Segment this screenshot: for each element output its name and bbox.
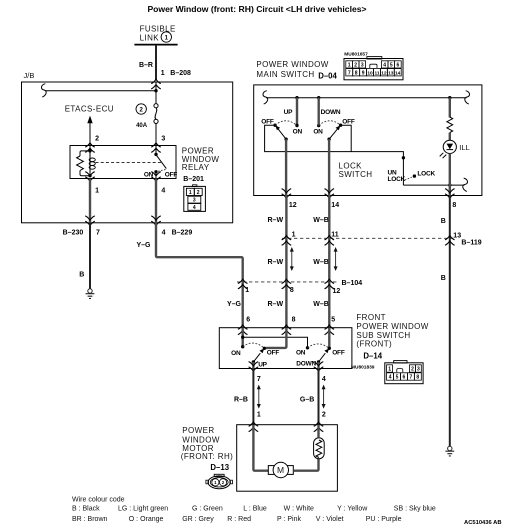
relay pin 2 chevrons xyxy=(85,143,95,153)
svg-text:B–208: B–208 xyxy=(170,70,191,77)
svg-text:4: 4 xyxy=(383,62,386,68)
svg-text:R–W: R–W xyxy=(268,217,284,224)
wire fuse to relay pin 3 xyxy=(155,124,157,146)
svg-text:OFF: OFF xyxy=(332,350,345,357)
svg-text:6: 6 xyxy=(397,62,400,68)
svg-text:G–B: G–B xyxy=(300,396,314,403)
pin 5 entry chevrons xyxy=(325,325,335,335)
connector B-229 chevrons xyxy=(151,216,161,226)
svg-text:POWER WINDOW: POWER WINDOW xyxy=(356,322,428,331)
front power window sub switch box xyxy=(219,328,352,369)
motor name label xyxy=(181,426,233,461)
svg-text:5: 5 xyxy=(331,316,335,323)
svg-text:G : Green: G : Green xyxy=(192,505,223,512)
svg-text:8: 8 xyxy=(290,287,294,294)
wire B-R down to fuse xyxy=(155,82,157,104)
wire B main pin 8 down xyxy=(449,196,451,447)
svg-text:(FRONT): (FRONT) xyxy=(356,339,392,348)
svg-text:ETACS-ECU: ETACS-ECU xyxy=(65,104,114,113)
relay pin 4 chevrons xyxy=(151,172,161,182)
ILL lamp LED xyxy=(440,140,457,158)
svg-text:6: 6 xyxy=(246,316,250,323)
svg-text:B–229: B–229 xyxy=(172,230,193,237)
pin 6 entry chevrons xyxy=(238,325,248,335)
svg-text:8: 8 xyxy=(292,316,296,323)
wire R-W to left OFF contact xyxy=(266,328,286,348)
svg-text:Y : Yellow: Y : Yellow xyxy=(337,505,368,512)
connector D-14 pin diagram xyxy=(385,361,423,384)
svg-text:DOWN: DOWN xyxy=(296,361,316,368)
svg-text:2: 2 xyxy=(95,136,99,143)
svg-text:2: 2 xyxy=(411,367,414,373)
svg-text:12: 12 xyxy=(381,70,387,76)
wire relay pin4 down inside J/B xyxy=(155,179,157,223)
node right OFF contact xyxy=(328,347,331,350)
svg-text:PU : Purple: PU : Purple xyxy=(366,516,402,523)
wire R-W main pin 12 down xyxy=(285,196,287,328)
svg-text:POWER WINDOW: POWER WINDOW xyxy=(256,60,328,69)
svg-text:O : Orange: O : Orange xyxy=(129,516,164,523)
svg-text:OFF: OFF xyxy=(342,118,355,125)
svg-text:DOWN: DOWN xyxy=(321,109,341,116)
main switch name label xyxy=(256,60,328,79)
svg-text:AC510436 AB: AC510436 AB xyxy=(464,520,501,526)
B-104 chevrons Y-G xyxy=(238,279,248,289)
svg-text:5: 5 xyxy=(390,62,393,68)
svg-text:13: 13 xyxy=(388,70,394,76)
node Y-G junction xyxy=(241,336,244,339)
svg-text:MAIN SWITCH: MAIN SWITCH xyxy=(256,70,314,79)
wire bus to UP ON contact xyxy=(296,98,298,126)
svg-text:4: 4 xyxy=(193,205,196,211)
fuse label circled 2 xyxy=(136,104,146,114)
node UP common pivot xyxy=(284,138,287,141)
wire label B right lower, ground right xyxy=(445,446,454,456)
B-119 chevrons W-B xyxy=(325,236,335,246)
svg-text:M: M xyxy=(277,465,284,475)
svg-text:FRONT: FRONT xyxy=(356,313,386,322)
ground left xyxy=(86,289,95,299)
svg-text:RELAY: RELAY xyxy=(182,163,210,172)
wire motor pin 1 to motor xyxy=(253,425,268,471)
svg-text:14: 14 xyxy=(395,70,401,76)
relay dashed travel xyxy=(158,170,166,172)
B-119 chevrons B xyxy=(445,236,455,246)
svg-text:ON: ON xyxy=(231,350,241,357)
main switch bus wire xyxy=(266,97,467,99)
svg-text:Power Window (front: RH) Circu: Power Window (front: RH) Circuit <LH dri… xyxy=(147,4,366,14)
DOWN switch blade xyxy=(329,125,340,139)
svg-text:9: 9 xyxy=(362,70,365,76)
wire Y-G to left ON contact xyxy=(241,328,243,347)
lock switch label xyxy=(339,162,373,179)
svg-text:B–201: B–201 xyxy=(183,176,204,183)
svg-text:3: 3 xyxy=(361,62,364,68)
wire bus to ILL resistor xyxy=(449,98,451,118)
svg-text:2: 2 xyxy=(322,411,326,418)
node UP OFF contact xyxy=(273,124,276,127)
svg-text:LINK: LINK xyxy=(140,33,160,42)
svg-text:3: 3 xyxy=(161,136,165,143)
svg-text:11: 11 xyxy=(331,231,339,238)
wire G-B down to motor xyxy=(318,369,320,425)
motor pin 2 entry chevrons xyxy=(314,422,324,432)
node lock switch contact xyxy=(402,156,405,159)
connector D-13 pin diagram xyxy=(206,474,233,488)
svg-text:V : Violet: V : Violet xyxy=(316,516,344,523)
svg-text:B–230: B–230 xyxy=(63,230,84,237)
pin 12 chevrons xyxy=(282,189,292,199)
relay switch blade xyxy=(156,154,167,168)
connector B-208 chevrons xyxy=(151,79,161,89)
svg-text:ILL: ILL xyxy=(459,143,469,152)
left sub switch blade xyxy=(253,349,264,363)
up-down arrow R-B xyxy=(257,385,261,409)
connector D-04 pin diagram xyxy=(344,57,403,80)
svg-text:11: 11 xyxy=(374,70,379,76)
DOWN switch dashed travel arc xyxy=(319,121,341,126)
svg-text:4: 4 xyxy=(161,188,165,195)
svg-text:1: 1 xyxy=(95,188,99,195)
wire break squiggle bus left xyxy=(263,91,268,104)
svg-text:Y–G: Y–G xyxy=(136,242,151,249)
svg-text:8: 8 xyxy=(355,70,358,76)
node left ON contact xyxy=(241,345,244,348)
svg-text:MU801657: MU801657 xyxy=(344,52,368,58)
svg-text:SWITCH: SWITCH xyxy=(339,170,373,179)
wire break squiggle lock line xyxy=(463,178,468,191)
wire break squiggle bus right xyxy=(465,91,470,104)
svg-text:4: 4 xyxy=(389,375,392,381)
svg-text:BR : Brown: BR : Brown xyxy=(72,516,108,523)
svg-text:7: 7 xyxy=(348,70,351,76)
up-down arrow G-B xyxy=(322,385,326,409)
fuse 2 40A element xyxy=(154,104,158,124)
power window main switch box xyxy=(254,85,482,196)
lock switch output line xyxy=(403,184,464,186)
svg-text:5: 5 xyxy=(396,375,399,381)
svg-text:Wire colour code: Wire colour code xyxy=(72,497,125,504)
node bus ILL branch xyxy=(448,96,451,99)
svg-text:2: 2 xyxy=(140,107,144,113)
lock switch dashed travel xyxy=(405,177,412,180)
pin 7 chevrons xyxy=(249,362,259,372)
svg-text:12: 12 xyxy=(289,202,297,209)
pin 8 entry chevrons xyxy=(282,325,292,335)
svg-text:12: 12 xyxy=(333,288,341,295)
wire W-B to right OFF contact xyxy=(328,328,330,349)
wire Y-G junction to right ON contact xyxy=(243,337,308,348)
svg-text:3: 3 xyxy=(193,198,196,204)
svg-text:1: 1 xyxy=(257,411,261,418)
svg-text:1: 1 xyxy=(214,480,217,485)
svg-text:13: 13 xyxy=(453,233,461,240)
pin 14 chevrons xyxy=(325,189,335,199)
svg-text:7: 7 xyxy=(257,376,261,383)
UP switch dashed travel arc xyxy=(275,121,297,126)
wire relay pin1 down inside J/B xyxy=(89,179,91,223)
svg-text:D–14: D–14 xyxy=(363,351,382,360)
node ILL lock junction xyxy=(448,183,451,186)
fusible link bus bar xyxy=(134,44,177,46)
svg-text:W–B: W–B xyxy=(313,259,329,266)
svg-text:Y–G: Y–G xyxy=(227,301,242,308)
svg-text:10: 10 xyxy=(367,70,373,76)
svg-text:B–R: B–R xyxy=(139,62,153,69)
motor M with brushes xyxy=(268,462,293,477)
svg-text:B: B xyxy=(441,275,446,282)
sub switch name label xyxy=(356,313,428,349)
fusible link label xyxy=(140,24,176,42)
wire ILL lamp to pin 8 xyxy=(449,154,451,196)
svg-text:ON: ON xyxy=(313,129,323,136)
svg-text:GR : Grey: GR : Grey xyxy=(182,516,214,523)
svg-text:R : Red: R : Red xyxy=(227,516,251,523)
wire relay ON contact to pin 4 xyxy=(155,172,157,179)
wire left pivot to pin 7 xyxy=(252,362,254,369)
connector B-104 dashed line xyxy=(237,281,339,283)
wire UP common to pin 12 xyxy=(285,139,287,195)
left sub switch dashed travel arc xyxy=(243,343,265,348)
svg-text:7: 7 xyxy=(96,230,100,237)
svg-text:MU801839: MU801839 xyxy=(351,364,375,370)
B-119 chevrons R-W xyxy=(282,236,292,246)
connector label B-230 7 xyxy=(63,230,100,237)
svg-text:3: 3 xyxy=(417,367,420,373)
wire resistor to ILL lamp xyxy=(449,133,451,141)
svg-text:R–W: R–W xyxy=(268,259,284,266)
wire B-R fusible link to J/B xyxy=(155,45,157,80)
svg-text:LOCK: LOCK xyxy=(388,176,406,183)
svg-text:1: 1 xyxy=(161,70,165,77)
svg-text:J/B: J/B xyxy=(24,71,35,80)
svg-text:B–104: B–104 xyxy=(342,280,363,287)
node DOWN ON contact xyxy=(317,124,320,127)
svg-text:OFF: OFF xyxy=(261,118,274,125)
relay pin 1 chevrons xyxy=(85,172,95,182)
svg-text:ON: ON xyxy=(293,129,303,136)
svg-text:POWER: POWER xyxy=(182,426,214,435)
bus wire inside J/B xyxy=(45,90,156,92)
node bus UP branch xyxy=(295,96,298,99)
motor pin 1 entry chevrons xyxy=(249,422,259,432)
node bus DOWN branch xyxy=(317,96,320,99)
power window relay box xyxy=(70,146,176,179)
svg-text:D–04: D–04 xyxy=(318,71,337,80)
OFF contacts bracket rail xyxy=(265,125,404,185)
relay pin 3 chevrons xyxy=(151,143,161,153)
svg-text:1: 1 xyxy=(388,367,391,373)
svg-text:7: 7 xyxy=(410,375,413,381)
svg-text:LOCK: LOCK xyxy=(417,170,435,177)
svg-text:1: 1 xyxy=(348,62,351,68)
node left pivot xyxy=(252,360,255,363)
wire Y-G from B-229 xyxy=(156,223,243,328)
svg-text:B: B xyxy=(79,272,84,279)
relay coil xyxy=(77,146,96,178)
wire motor to breaker xyxy=(293,459,318,471)
label UN LOCK xyxy=(388,169,406,183)
node left OFF contact xyxy=(263,347,266,350)
svg-text:14: 14 xyxy=(331,202,339,209)
svg-text:2: 2 xyxy=(354,62,357,68)
node relay ON contact xyxy=(154,170,157,173)
svg-text:W–B: W–B xyxy=(313,301,329,308)
svg-text:6: 6 xyxy=(403,375,406,381)
svg-text:D–13: D–13 xyxy=(210,463,229,472)
junction block J/B box xyxy=(22,82,233,223)
relay actuation dashed line xyxy=(96,162,164,164)
up-down arrow R-W xyxy=(290,247,294,271)
arrow to ETACS-ECU xyxy=(87,116,92,146)
svg-text:1: 1 xyxy=(189,190,192,196)
svg-text:40A: 40A xyxy=(136,123,148,129)
connector B-119 dashed line xyxy=(282,237,455,239)
connector B-230 chevrons xyxy=(85,216,95,226)
svg-text:W–B: W–B xyxy=(313,217,329,224)
up-down arrow W-B xyxy=(334,247,338,271)
svg-text:(FRONT: RH): (FRONT: RH) xyxy=(181,452,233,461)
svg-text:B–119: B–119 xyxy=(461,239,481,246)
node bus junction xyxy=(154,89,157,92)
node UP ON contact xyxy=(295,124,298,127)
resistor ILL xyxy=(447,117,453,133)
B-104 chevrons R-W xyxy=(282,279,292,289)
svg-text:2: 2 xyxy=(197,190,200,196)
svg-text:W : White: W : White xyxy=(284,505,314,512)
node right ON contact xyxy=(306,346,309,349)
svg-text:OFF: OFF xyxy=(165,172,178,179)
node DOWN common pivot xyxy=(327,138,330,141)
wire B to ground xyxy=(89,223,91,289)
UP switch blade xyxy=(275,125,286,139)
svg-text:L : Blue: L : Blue xyxy=(243,505,267,512)
node relay common xyxy=(154,153,157,156)
svg-text:FUSIBLE: FUSIBLE xyxy=(140,24,176,33)
pin 4 chevrons xyxy=(314,362,324,372)
svg-text:SB : Sky blue: SB : Sky blue xyxy=(394,505,436,512)
svg-text:1: 1 xyxy=(165,35,169,41)
svg-text:ON: ON xyxy=(296,350,306,357)
svg-text:1: 1 xyxy=(245,287,249,294)
wire R-B down to motor xyxy=(252,369,254,425)
connector B-201 pin diagram xyxy=(184,185,206,212)
svg-text:2: 2 xyxy=(222,480,225,485)
wire W-B main pin 14 down xyxy=(328,196,330,328)
svg-text:P : Pink: P : Pink xyxy=(277,516,301,523)
svg-text:R–B: R–B xyxy=(234,396,248,403)
power window motor box xyxy=(237,425,338,492)
wire colour code legend xyxy=(72,497,436,523)
svg-text:R–W: R–W xyxy=(268,301,284,308)
svg-text:4: 4 xyxy=(322,376,326,383)
relay switch common from pin 3 xyxy=(155,146,157,155)
wire breaker to pin 2 xyxy=(317,425,319,438)
svg-text:B: B xyxy=(441,218,446,225)
node lock contact LOCK xyxy=(413,174,416,177)
svg-text:1: 1 xyxy=(292,231,296,238)
right sub switch dashed travel arc xyxy=(308,344,330,348)
svg-text:UP: UP xyxy=(284,109,293,116)
right sub switch blade xyxy=(319,349,330,363)
wire break squiggle left of bus xyxy=(42,84,47,97)
svg-text:UP: UP xyxy=(258,362,267,369)
svg-text:LG : Light green: LG : Light green xyxy=(118,505,168,512)
B-104 chevrons W-B xyxy=(325,279,335,289)
relay name label xyxy=(182,147,220,173)
wire bus to DOWN ON contact xyxy=(318,98,320,126)
wire right pivot to pin 4 xyxy=(317,362,319,369)
wire DOWN common to pin 14 xyxy=(328,139,330,195)
svg-text:B : Black: B : Black xyxy=(72,505,100,512)
pin 8 chevrons xyxy=(445,189,455,199)
node DOWN OFF contact xyxy=(339,124,342,127)
svg-text:OFF: OFF xyxy=(267,350,280,357)
svg-text:8: 8 xyxy=(452,202,456,209)
fusible link circled 1 xyxy=(161,32,171,42)
svg-text:4: 4 xyxy=(162,230,166,237)
node right pivot xyxy=(317,360,320,363)
svg-text:8: 8 xyxy=(416,375,419,381)
circuit breaker thermal xyxy=(314,438,325,459)
